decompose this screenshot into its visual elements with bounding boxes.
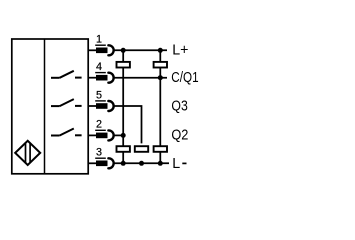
load resistor RL4 (Q3 to L-) [135,146,148,152]
junction dot Q2/colA [121,133,126,138]
load resistor RL2 (L+ to C/Q1 column) [154,62,167,68]
junction dot L-/colA [121,161,126,166]
pin 5 label [95,89,106,101]
svg-text:3: 3 [96,147,102,159]
wire column C (L+ to C/Q1 to L-) [159,50,161,163]
svg-text:4: 4 [96,61,102,73]
pin 2 contact [88,130,113,140]
pin 3 contact [88,158,113,168]
svg-text:L: L [172,156,180,172]
svg-text:C/Q1: C/Q1 [171,69,198,86]
sensor body divider [44,39,46,174]
wire column A (L+ to Q2 to L-) [122,50,124,163]
pin 5 contact [88,101,113,111]
pin 4 contact [88,73,113,83]
wire C/Q1 [114,77,167,79]
switch S2 (row pin 5) [51,99,82,106]
svg-text:1: 1 [96,34,102,46]
wire L- rail [114,162,169,164]
svg-text:Q2: Q2 [171,125,188,142]
pin 1 contact [88,45,113,55]
svg-text:Q3: Q3 [171,97,188,113]
svg-text:L+: L+ [172,42,188,58]
junction dot C/Q1/colC [158,75,163,80]
junction dot L+/colA [121,48,126,53]
wire Q3 with corner down [114,106,142,143]
junction dot L+/colC [158,48,163,53]
svg-text:5: 5 [96,89,102,101]
wire L+ rail [114,49,167,51]
pin 2 label [95,119,106,131]
wire Q2 [114,134,124,136]
load resistor RL1 (L+ to Q2 column) [117,62,130,68]
load resistor RL3 (Q2 to L-) [117,146,130,152]
switch S1 (row pin 4) [51,71,82,78]
load resistor RL5 (C/Q1 to L-) [154,146,167,152]
junction dot L-/colB [139,161,144,166]
svg-text:2: 2 [96,119,102,131]
sensor body [12,39,88,174]
proximity sensor symbol [15,141,40,165]
switch S3 (row pin 2) [51,129,82,136]
pin 4 label [95,61,106,73]
pin 1 label [95,34,106,46]
pin 3 label [95,147,106,159]
junction dot L-/colC [158,161,163,166]
